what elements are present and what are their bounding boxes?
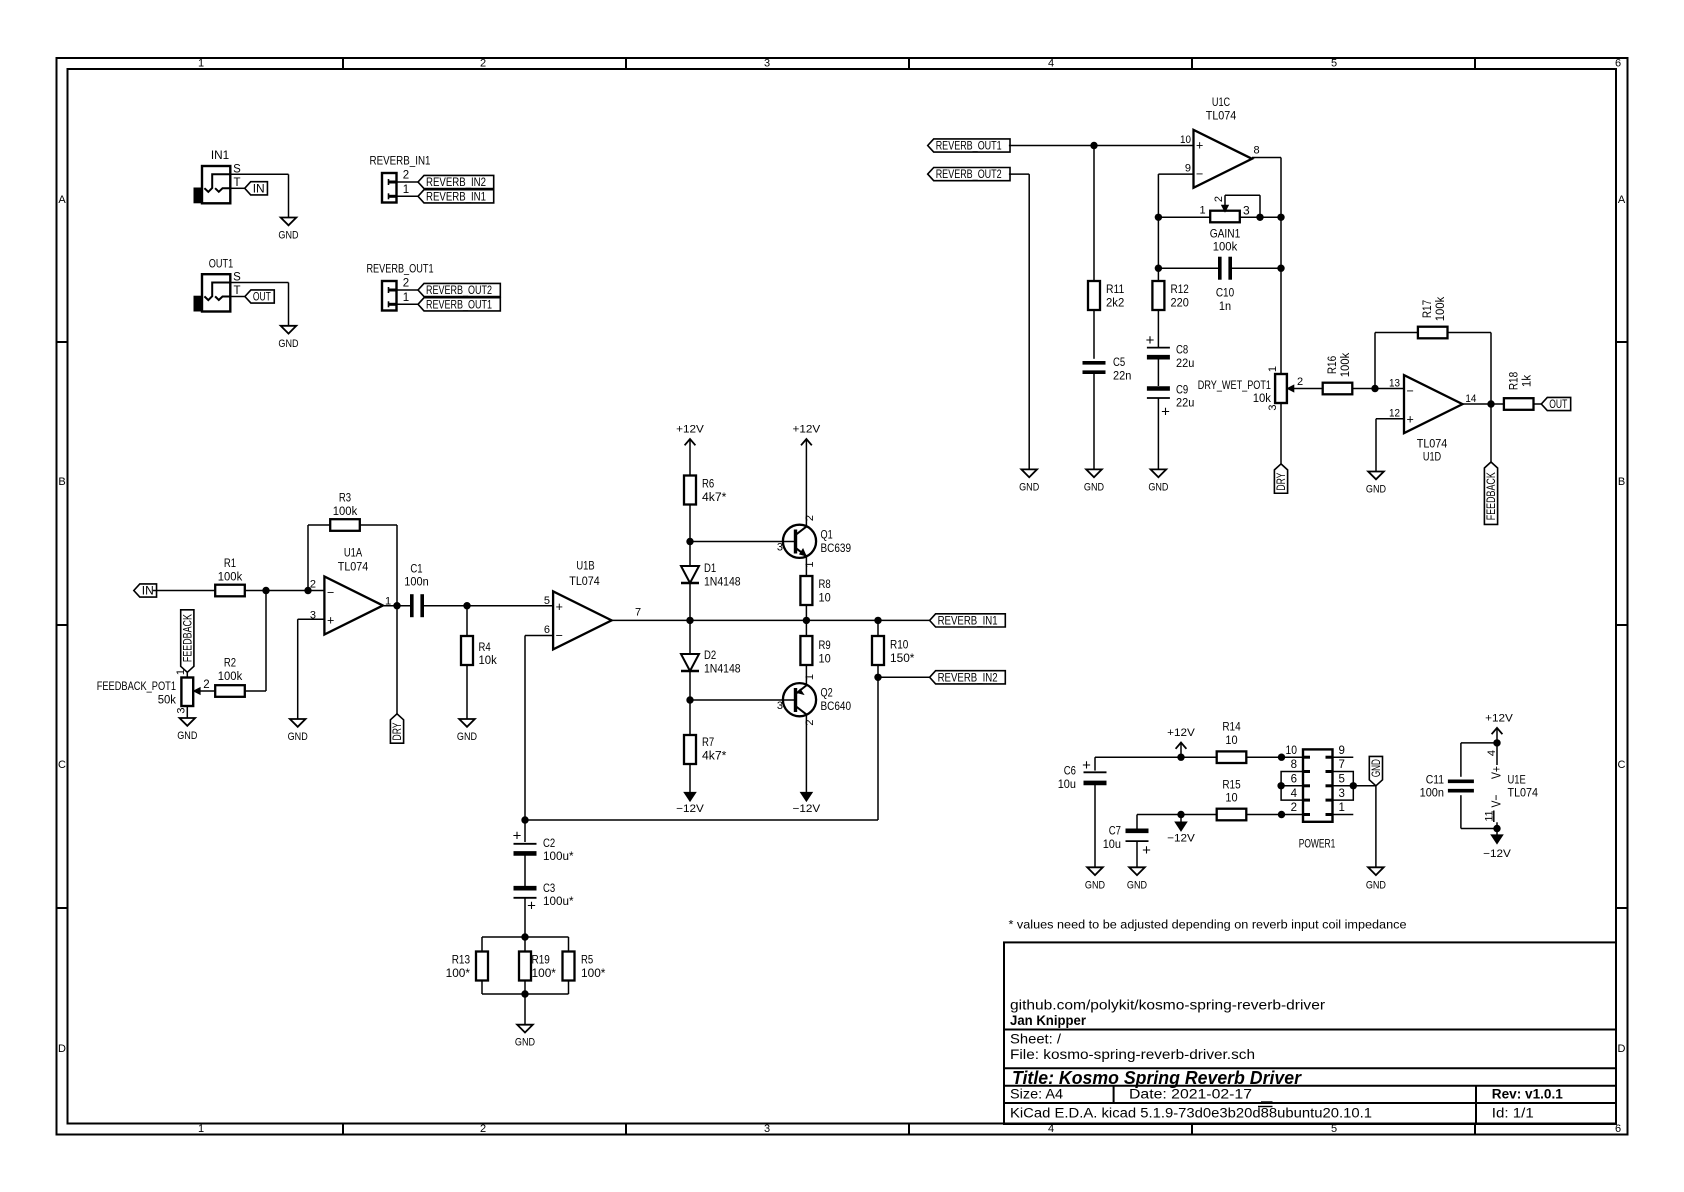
svg-text:100n: 100n <box>404 575 428 589</box>
svg-text:50k: 50k <box>158 693 177 707</box>
svg-text:100u*: 100u* <box>543 894 574 908</box>
svg-text:10: 10 <box>1180 134 1191 146</box>
svg-text:C5: C5 <box>1113 355 1125 369</box>
svg-text:1N4148: 1N4148 <box>704 661 741 675</box>
svg-text:GND: GND <box>1366 879 1386 891</box>
svg-text:R14: R14 <box>1222 720 1240 734</box>
svg-text:R15: R15 <box>1222 777 1240 791</box>
svg-text:GND: GND <box>288 731 308 743</box>
svg-text:−: − <box>1407 384 1414 398</box>
svg-text:REVERB_IN1: REVERB_IN1 <box>938 613 998 627</box>
svg-text:REVERB_OUT1: REVERB_OUT1 <box>366 262 433 276</box>
svg-text:B: B <box>58 476 65 488</box>
svg-text:POWER1: POWER1 <box>1299 837 1336 851</box>
svg-text:GND: GND <box>1085 879 1105 891</box>
svg-text:C11: C11 <box>1426 773 1444 787</box>
svg-text:OUT: OUT <box>1549 397 1567 411</box>
svg-text:+: + <box>556 600 563 614</box>
svg-text:GND: GND <box>515 1037 535 1049</box>
svg-text:8: 8 <box>1253 145 1259 157</box>
svg-text:C: C <box>1618 759 1626 771</box>
svg-text:GND: GND <box>1148 481 1168 493</box>
svg-text:GAIN1: GAIN1 <box>1210 227 1241 241</box>
svg-text:10: 10 <box>819 590 831 604</box>
svg-text:2: 2 <box>1297 376 1303 388</box>
svg-text:D: D <box>1618 1043 1626 1055</box>
svg-text:3: 3 <box>1339 788 1345 800</box>
svg-text:TL074: TL074 <box>1417 436 1448 450</box>
svg-text:R8: R8 <box>819 577 831 591</box>
svg-text:1: 1 <box>403 292 409 304</box>
svg-text:GND: GND <box>1019 481 1039 493</box>
svg-text:2: 2 <box>310 579 316 591</box>
svg-text:22n: 22n <box>1113 368 1131 382</box>
svg-text:FEEDBACK_POT1: FEEDBACK_POT1 <box>97 679 176 693</box>
svg-text:FEEDBACK: FEEDBACK <box>180 614 194 663</box>
svg-text:FEEDBACK: FEEDBACK <box>1484 472 1498 521</box>
svg-text:Q1: Q1 <box>821 528 833 542</box>
svg-text:100*: 100* <box>532 966 557 980</box>
svg-text:C2: C2 <box>543 836 555 850</box>
svg-text:REVERB_IN1: REVERB_IN1 <box>370 154 431 168</box>
svg-text:BC639: BC639 <box>821 541 852 555</box>
svg-text:2k2: 2k2 <box>1106 295 1125 309</box>
svg-text:+: + <box>1142 842 1151 859</box>
svg-text:DRY: DRY <box>390 722 404 740</box>
svg-text:8: 8 <box>1291 759 1297 771</box>
svg-text:6: 6 <box>544 624 550 636</box>
svg-text:1n: 1n <box>1219 299 1231 313</box>
svg-text:1: 1 <box>1267 366 1279 372</box>
svg-text:100u*: 100u* <box>543 849 574 863</box>
svg-text:22u: 22u <box>1176 356 1194 370</box>
svg-text:6: 6 <box>1615 58 1621 70</box>
svg-text:4k7*: 4k7* <box>702 490 727 504</box>
svg-text:2: 2 <box>804 515 816 521</box>
svg-text:+12V: +12V <box>793 423 821 435</box>
svg-text:4: 4 <box>1291 788 1298 800</box>
svg-text:R2: R2 <box>224 656 236 670</box>
svg-text:14: 14 <box>1465 393 1476 405</box>
svg-text:C8: C8 <box>1176 343 1188 357</box>
svg-text:KiCad E.D.A. kicad 5.1.9-73d0: KiCad E.D.A. kicad 5.1.9-73d0e3b20d88ubu… <box>1010 1106 1372 1121</box>
svg-text:Jan Knipper: Jan Knipper <box>1010 1013 1087 1028</box>
svg-text:T: T <box>233 177 240 189</box>
svg-text:+: + <box>1146 332 1155 349</box>
svg-text:R6: R6 <box>702 477 714 491</box>
svg-text:GND: GND <box>1366 484 1386 496</box>
svg-text:4k7*: 4k7* <box>702 748 727 762</box>
svg-text:+: + <box>1161 404 1170 421</box>
svg-text:R1: R1 <box>224 556 236 570</box>
svg-text:Rev: v1.0.1: Rev: v1.0.1 <box>1492 1087 1564 1102</box>
svg-text:TL074: TL074 <box>1206 108 1237 122</box>
svg-text:−12V: −12V <box>1483 848 1511 860</box>
svg-text:R3: R3 <box>339 491 351 505</box>
svg-text:1: 1 <box>403 184 409 196</box>
svg-text:GND: GND <box>457 731 477 743</box>
svg-text:Sheet: /: Sheet: / <box>1010 1032 1061 1047</box>
svg-text:9: 9 <box>1339 745 1345 757</box>
svg-text:9: 9 <box>1185 163 1191 175</box>
svg-text:A: A <box>58 194 66 206</box>
svg-text:22u: 22u <box>1176 396 1194 410</box>
svg-text:REVERB_IN1: REVERB_IN1 <box>426 189 486 203</box>
svg-text:* values need to be adjusted d: * values need to be adjusted depending o… <box>1009 918 1407 932</box>
svg-text:1k: 1k <box>1520 374 1534 387</box>
svg-text:2: 2 <box>203 679 209 691</box>
svg-text:B: B <box>1618 476 1625 488</box>
svg-text:10: 10 <box>819 651 831 665</box>
svg-text:OUT1: OUT1 <box>209 256 234 270</box>
svg-text:Date: 2021-02-17: Date: 2021-02-17 <box>1129 1087 1252 1102</box>
svg-text:GND: GND <box>278 230 298 242</box>
svg-text:1: 1 <box>1199 205 1205 217</box>
svg-text:U1A: U1A <box>344 546 363 560</box>
svg-text:C7: C7 <box>1109 824 1121 838</box>
svg-text:1: 1 <box>198 58 204 70</box>
svg-text:D2: D2 <box>704 648 716 662</box>
svg-text:1: 1 <box>198 1123 204 1135</box>
svg-text:3: 3 <box>1267 404 1279 410</box>
svg-text:1: 1 <box>804 674 816 680</box>
svg-text:REVERB_OUT1: REVERB_OUT1 <box>426 297 492 311</box>
svg-text:R7: R7 <box>702 735 714 749</box>
svg-text:R13: R13 <box>452 953 470 967</box>
svg-text:C6: C6 <box>1064 764 1076 778</box>
svg-text:REVERB_OUT1: REVERB_OUT1 <box>936 139 1002 153</box>
svg-text:TL074: TL074 <box>1508 786 1539 800</box>
svg-text:U1B: U1B <box>576 559 594 573</box>
svg-text:3: 3 <box>764 1123 770 1135</box>
svg-text:DRY: DRY <box>1274 473 1288 491</box>
svg-text:Id: 1/1: Id: 1/1 <box>1492 1106 1534 1121</box>
svg-text:100k: 100k <box>333 504 358 518</box>
svg-text:+: + <box>1196 139 1203 153</box>
svg-text:−12V: −12V <box>1167 833 1195 845</box>
svg-text:2: 2 <box>1291 802 1297 814</box>
svg-text:12: 12 <box>1389 407 1400 419</box>
svg-text:Size: A4: Size: A4 <box>1010 1087 1064 1102</box>
svg-text:3: 3 <box>777 700 783 712</box>
svg-text:R4: R4 <box>479 640 491 654</box>
svg-text:−: − <box>1196 167 1203 181</box>
svg-text:7: 7 <box>635 607 641 619</box>
svg-text:R18: R18 <box>1507 372 1521 390</box>
svg-text:100k: 100k <box>1213 240 1238 254</box>
svg-text:1: 1 <box>175 669 187 675</box>
svg-text:DRY_WET_POT1: DRY_WET_POT1 <box>1198 378 1271 392</box>
svg-text:100n: 100n <box>1420 786 1444 800</box>
svg-text:1: 1 <box>1339 802 1345 814</box>
svg-text:U1C: U1C <box>1212 95 1230 109</box>
svg-text:github.com/polykit/kosmo-sprin: github.com/polykit/kosmo-spring-reverb-d… <box>1010 998 1326 1013</box>
svg-text:1N4148: 1N4148 <box>704 574 741 588</box>
svg-text:5: 5 <box>1339 774 1345 786</box>
svg-text:10: 10 <box>1225 733 1237 747</box>
svg-text:−12V: −12V <box>676 803 704 815</box>
svg-text:3: 3 <box>176 707 188 713</box>
svg-text:−: − <box>327 585 334 599</box>
svg-text:T: T <box>233 285 240 297</box>
svg-text:U1D: U1D <box>1423 449 1441 463</box>
svg-text:4: 4 <box>1048 58 1054 70</box>
svg-text:−12V: −12V <box>793 803 821 815</box>
svg-text:10u: 10u <box>1058 777 1076 791</box>
svg-text:2: 2 <box>1213 196 1225 202</box>
svg-text:3: 3 <box>777 542 783 554</box>
svg-text:6: 6 <box>1291 774 1297 786</box>
svg-text:R17: R17 <box>1420 300 1434 318</box>
svg-text:220: 220 <box>1171 295 1189 309</box>
svg-text:10u: 10u <box>1103 837 1121 851</box>
svg-text:C1: C1 <box>410 562 422 576</box>
svg-text:2: 2 <box>403 278 409 290</box>
svg-text:10k: 10k <box>1253 391 1272 405</box>
svg-text:R10: R10 <box>890 638 908 652</box>
svg-text:2: 2 <box>480 1123 486 1135</box>
svg-text:C3: C3 <box>543 881 555 895</box>
svg-text:R11: R11 <box>1106 282 1124 296</box>
svg-text:OUT: OUT <box>253 290 271 304</box>
svg-text:150*: 150* <box>890 651 915 665</box>
svg-text:10: 10 <box>1286 745 1298 757</box>
svg-text:+: + <box>513 828 522 845</box>
svg-text:100*: 100* <box>581 966 606 980</box>
svg-text:100k: 100k <box>218 569 243 583</box>
svg-text:D: D <box>58 1043 66 1055</box>
svg-text:GND: GND <box>177 730 197 742</box>
svg-text:R19: R19 <box>532 953 550 967</box>
svg-text:2: 2 <box>480 58 486 70</box>
svg-text:+12V: +12V <box>1167 727 1195 739</box>
svg-text:+: + <box>327 614 334 628</box>
svg-text:A: A <box>1618 194 1626 206</box>
svg-text:File: kosmo-spring-reverb-driv: File: kosmo-spring-reverb-driver.sch <box>1010 1047 1255 1062</box>
svg-text:REVERB_OUT2: REVERB_OUT2 <box>936 167 1002 181</box>
svg-text:−: − <box>556 629 563 643</box>
svg-text:+12V: +12V <box>1485 713 1513 725</box>
svg-text:100k: 100k <box>1338 352 1352 377</box>
svg-text:V+: V+ <box>1489 766 1504 779</box>
svg-text:REVERB_IN2: REVERB_IN2 <box>426 175 486 189</box>
svg-text:+: + <box>1082 757 1091 774</box>
svg-text:1: 1 <box>804 561 816 567</box>
svg-text:D1: D1 <box>704 561 716 575</box>
svg-text:R12: R12 <box>1171 282 1189 296</box>
svg-text:2: 2 <box>403 170 409 182</box>
svg-text:7: 7 <box>1339 759 1345 771</box>
svg-text:+: + <box>1407 412 1414 426</box>
svg-text:TL074: TL074 <box>338 559 369 573</box>
svg-text:Title: Kosmo Spring Reverb Dri: Title: Kosmo Spring Reverb Driver <box>1012 1068 1302 1088</box>
svg-text:REVERB_OUT2: REVERB_OUT2 <box>426 283 492 297</box>
svg-text:3: 3 <box>1243 204 1250 218</box>
svg-text:U1E: U1E <box>1508 773 1526 787</box>
svg-text:13: 13 <box>1389 378 1400 390</box>
svg-text:GND: GND <box>278 338 298 350</box>
svg-text:C9: C9 <box>1176 382 1188 396</box>
svg-text:GND: GND <box>1127 879 1147 891</box>
svg-text:R5: R5 <box>581 953 593 967</box>
svg-text:10k: 10k <box>479 653 498 667</box>
svg-text:BC640: BC640 <box>821 699 852 713</box>
svg-text:5: 5 <box>544 595 550 607</box>
svg-text:4: 4 <box>1486 750 1498 756</box>
svg-text:Q2: Q2 <box>821 686 833 700</box>
svg-text:IN: IN <box>253 181 265 195</box>
svg-text:2: 2 <box>804 719 816 725</box>
svg-text:+12V: +12V <box>676 423 704 435</box>
svg-text:C: C <box>58 759 66 771</box>
svg-text:100*: 100* <box>446 966 471 980</box>
svg-text:10: 10 <box>1225 791 1237 805</box>
svg-text:3: 3 <box>764 58 770 70</box>
svg-text:V−: V− <box>1489 795 1504 808</box>
svg-text:100k: 100k <box>1433 296 1447 321</box>
svg-text:100k: 100k <box>218 669 243 683</box>
svg-text:TL074: TL074 <box>569 574 600 588</box>
svg-text:IN1: IN1 <box>211 148 230 162</box>
svg-text:IN: IN <box>142 584 154 598</box>
svg-text:C10: C10 <box>1216 286 1234 300</box>
svg-text:REVERB_IN2: REVERB_IN2 <box>938 670 998 684</box>
svg-text:R9: R9 <box>819 638 831 652</box>
svg-text:5: 5 <box>1331 58 1337 70</box>
svg-text:R16: R16 <box>1325 356 1339 374</box>
svg-text:+: + <box>527 897 536 914</box>
svg-text:GND: GND <box>1084 481 1104 493</box>
svg-text:GND: GND <box>1369 759 1383 777</box>
